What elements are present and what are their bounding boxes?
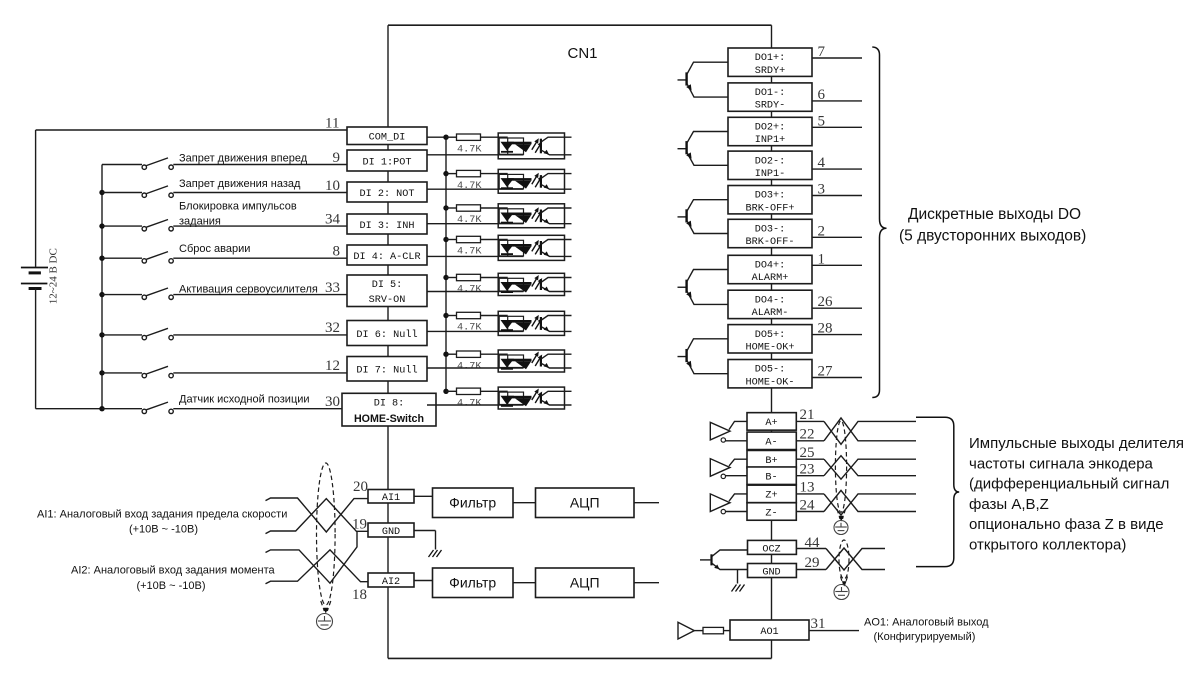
svg-text:GND: GND xyxy=(382,527,400,538)
svg-text:32: 32 xyxy=(325,320,340,336)
pin box A- xyxy=(747,432,796,450)
pin box B- xyxy=(747,467,796,485)
wire: AI2 to filter xyxy=(414,580,433,582)
svg-text:(+10В ~ -10В): (+10В ~ -10В) xyxy=(136,580,205,592)
svg-text:Фильтр: Фильтр xyxy=(449,494,496,510)
wire: DI box to optocoupler U3 xyxy=(427,223,524,225)
battery B1 12~24V DC xyxy=(35,130,37,267)
svg-text:Импульсные выходы делителя: Импульсные выходы делителя xyxy=(969,435,1184,452)
svg-text:Блокировка импульсов: Блокировка импульсов xyxy=(179,200,297,212)
pin box DO1- SRDY- xyxy=(728,83,812,111)
junction on switch bus row DI2 xyxy=(99,190,104,195)
svg-text:OCZ: OCZ xyxy=(762,545,780,556)
wire: switch S7 to DI7 box xyxy=(173,372,347,374)
resistor R4 4.7K xyxy=(446,239,457,241)
pin box OCZ xyxy=(748,540,797,554)
pin box B+ xyxy=(747,450,796,468)
pin box DO3+ BRK-OFF+ xyxy=(728,186,812,214)
switch S8 (DI8) xyxy=(102,408,142,410)
wire: DI box to optocoupler U2 xyxy=(427,188,524,190)
svg-text:HOME-OK+: HOME-OK+ xyxy=(746,342,795,353)
svg-text:Запрет движения назад: Запрет движения назад xyxy=(179,178,301,190)
wire: switch S8 to DI8 box xyxy=(173,408,347,410)
svg-text:Z-: Z- xyxy=(765,508,777,519)
junction on switch bus row DI5 xyxy=(99,292,104,297)
svg-text:DO4+:: DO4+: xyxy=(755,261,786,272)
pin box AI1 xyxy=(368,490,414,504)
junction: emitter to signal ground xyxy=(737,570,739,584)
svg-text:AO1: Аналоговый выход: AO1: Аналоговый выход xyxy=(864,617,989,629)
svg-text:Z+: Z+ xyxy=(765,491,777,502)
svg-text:33: 33 xyxy=(325,280,340,296)
switch S3 (DI3) xyxy=(102,225,142,227)
pin box DI1 xyxy=(347,150,427,171)
wire: CN1 top rail xyxy=(388,24,772,26)
wire: pin 11 wire battery+ to COM_DI xyxy=(36,129,347,131)
pin box DI3 xyxy=(347,214,427,234)
svg-text:10: 10 xyxy=(325,178,340,194)
wire: switch S6 to DI6 box xyxy=(173,334,347,336)
wire: DI box to optocoupler U4 xyxy=(427,255,524,257)
wire: DI box to optocoupler U7 xyxy=(427,367,524,369)
svg-text:12: 12 xyxy=(325,358,340,374)
resistor (AO1 output) xyxy=(703,627,724,633)
block: filter 2 xyxy=(433,568,514,598)
junction resistor bus row 2 xyxy=(443,171,448,176)
svg-text:(+10В ~ -10В): (+10В ~ -10В) xyxy=(129,524,198,536)
optocoupler U7 xyxy=(498,350,564,372)
protective earth (analog shield) xyxy=(317,614,333,630)
bracket: discrete outputs DO xyxy=(872,47,886,398)
svg-text:4.7K: 4.7K xyxy=(457,144,482,155)
svg-text:(дифференциальный сигнал: (дифференциальный сигнал xyxy=(969,476,1169,493)
svg-text:11: 11 xyxy=(325,116,339,132)
wire: GND to signal ground xyxy=(414,530,436,532)
svg-text:INP1+: INP1+ xyxy=(755,135,786,146)
pin box DO1+ SRDY+ xyxy=(728,48,812,76)
junction resistor bus row 3 xyxy=(443,205,448,210)
svg-text:AI2: Аналоговый вход задания м: AI2: Аналоговый вход задания момента xyxy=(71,565,276,577)
svg-text:AI1: Аналоговый вход задания: AI1: Аналоговый вход задания предела ско… xyxy=(37,509,287,521)
svg-text:12~24 В DC: 12~24 В DC xyxy=(48,248,60,304)
svg-text:31: 31 xyxy=(811,616,826,632)
pin box DO2- INP1- xyxy=(728,151,812,179)
wire: switch S1 to DI1 box xyxy=(173,164,347,166)
pin box DO5+ HOME-OK+ xyxy=(728,325,812,353)
svg-text:CN1: CN1 xyxy=(568,45,598,62)
svg-text:HOME-Switch: HOME-Switch xyxy=(354,413,424,425)
wire: filter1 to ADC1 xyxy=(513,502,536,504)
junction on switch bus row DI4 xyxy=(99,256,104,261)
transistor Q6 (open collector Z) xyxy=(700,559,710,561)
wire: DI box to optocoupler U5 xyxy=(427,291,524,293)
pin box DO2+ INP1+ xyxy=(728,117,812,145)
svg-text:30: 30 xyxy=(325,394,340,410)
wire: DI box to optocoupler U8 xyxy=(427,404,524,406)
svg-text:DO1+:: DO1+: xyxy=(755,53,786,64)
svg-text:DO3-:: DO3-: xyxy=(755,225,786,236)
resistor R6 4.7K xyxy=(446,315,457,317)
svg-text:AI1: AI1 xyxy=(382,493,400,504)
pin box GND (encoder) xyxy=(748,564,797,578)
svg-text:4.7K: 4.7K xyxy=(457,285,482,296)
svg-text:Запрет движения вперед: Запрет движения вперед xyxy=(179,153,308,165)
svg-text:Датчик исходной позиции: Датчик исходной позиции xyxy=(179,393,310,405)
line driver D3 (phase Z) xyxy=(710,494,730,512)
pin box Z+ xyxy=(747,485,796,503)
svg-text:4.7K: 4.7K xyxy=(457,361,482,372)
svg-text:A-: A- xyxy=(765,438,777,449)
svg-text:DI 2: NOT: DI 2: NOT xyxy=(359,189,414,200)
transistor Q2 (DO2 output) xyxy=(678,148,686,150)
pin box AO1 xyxy=(730,620,809,640)
pin box DI2 xyxy=(347,182,427,202)
switch S7 (DI7) xyxy=(102,372,142,374)
wire: ADC2 output stub xyxy=(634,582,659,584)
svg-text:Дискретные выходы DO: Дискретные выходы DO xyxy=(908,206,1081,223)
bracket: encoder frequency-divider outputs xyxy=(916,417,959,566)
svg-text:DO5+:: DO5+: xyxy=(755,330,786,341)
svg-text:4.7K: 4.7K xyxy=(457,399,482,410)
ground (signal) analog xyxy=(429,550,434,557)
line driver D1 (phase A) xyxy=(710,422,730,440)
wire: filter2 to ADC2 xyxy=(513,582,536,584)
wire: DI box to optocoupler U1 xyxy=(427,154,524,156)
switch S6 (DI6) xyxy=(102,334,142,336)
shield ellipse (analog cable) xyxy=(317,463,336,605)
svg-text:BRK-OFF-: BRK-OFF- xyxy=(746,237,795,248)
pin box DO4+ ALARM+ xyxy=(728,255,812,283)
pin box DI5 xyxy=(347,275,427,307)
wire: battery- return to switch bus xyxy=(36,408,102,410)
wire: AI1 to filter xyxy=(414,495,433,497)
optocoupler U1 xyxy=(498,133,564,159)
svg-text:DI 3: INH: DI 3: INH xyxy=(359,221,414,232)
wire: right spine (DO/encoder/AO chain) xyxy=(771,25,773,658)
svg-text:задания: задания xyxy=(179,216,221,228)
twisted pair (AI2 input) xyxy=(266,531,358,583)
twisted pair (encoder differential) xyxy=(796,493,824,495)
svg-text:фазы A,B,Z: фазы A,B,Z xyxy=(969,496,1049,513)
svg-text:DO5-:: DO5-: xyxy=(755,365,786,376)
svg-text:SRDY+: SRDY+ xyxy=(755,66,786,77)
wire: switch S5 to DI5 box xyxy=(173,294,347,296)
wire: bottom rail xyxy=(388,657,772,659)
resistor R2 4.7K xyxy=(446,173,457,175)
svg-text:DI 1:POT: DI 1:POT xyxy=(363,157,412,168)
svg-text:Фильтр: Фильтр xyxy=(449,574,496,590)
twisted pair (encoder differential) xyxy=(796,420,824,422)
svg-text:4.7K: 4.7K xyxy=(457,181,482,192)
svg-text:8: 8 xyxy=(333,244,341,260)
wire: ADC1 output stub xyxy=(634,502,659,504)
switch S4 (DI4) xyxy=(102,257,142,259)
svg-text:4.7K: 4.7K xyxy=(457,215,482,226)
svg-text:B-: B- xyxy=(765,473,777,484)
svg-text:19: 19 xyxy=(352,517,367,533)
svg-text:открытого коллектора): открытого коллектора) xyxy=(969,537,1126,554)
svg-text:AO1: AO1 xyxy=(760,627,778,638)
pin box DI4 xyxy=(347,245,427,265)
svg-text:COM_DI: COM_DI xyxy=(369,133,406,144)
pin box Z- xyxy=(747,503,796,521)
svg-text:GND: GND xyxy=(762,568,780,579)
block: ADC 2 xyxy=(536,568,635,598)
switch S5 (DI5) xyxy=(102,294,142,296)
resistor R5 4.7K xyxy=(446,277,457,279)
svg-text:ALARM+: ALARM+ xyxy=(752,273,789,284)
svg-text:DO4-:: DO4-: xyxy=(755,295,786,306)
optocoupler U8 xyxy=(498,387,564,409)
switch S2 (DI2) xyxy=(102,192,142,194)
wire: COM_DI to 4.7K resistor bus xyxy=(427,136,446,138)
optocoupler U2 xyxy=(498,169,564,193)
junction on switch bus row DI6 xyxy=(99,332,104,337)
svg-text:Сброс аварии: Сброс аварии xyxy=(179,243,250,255)
wire: left spine (DI/AI chain) xyxy=(387,25,389,658)
junction resistor bus row 1 xyxy=(443,135,448,140)
svg-text:DI 6: Null: DI 6: Null xyxy=(356,329,417,341)
svg-text:DO2-:: DO2-: xyxy=(755,156,786,167)
protective earth (OCZ shield) xyxy=(834,585,849,600)
svg-text:A+: A+ xyxy=(765,418,777,429)
pin box DI7 xyxy=(347,357,427,382)
resistor R7 4.7K xyxy=(446,353,457,355)
junction on switch bus row DI8 xyxy=(99,406,104,411)
optocoupler U5 xyxy=(498,273,564,295)
junction resistor bus row 6 xyxy=(443,313,448,318)
svg-text:DI 8:: DI 8: xyxy=(374,398,405,409)
svg-text:частоты сигнала энкодера: частоты сигнала энкодера xyxy=(969,455,1154,472)
resistor R8 4.7K xyxy=(446,390,457,392)
wire: switch S4 to DI4 box xyxy=(173,257,347,259)
transistor Q5 (DO5 output) xyxy=(678,356,686,358)
svg-text:18: 18 xyxy=(352,587,367,603)
junction resistor bus row 7 xyxy=(443,352,448,357)
transistor Q1 (DO1 output) xyxy=(678,79,686,81)
block: filter 1 xyxy=(433,488,514,518)
svg-text:ALARM-: ALARM- xyxy=(752,308,789,319)
protective earth (encoder shield) xyxy=(834,521,848,535)
optocoupler U3 xyxy=(498,204,564,228)
pin box DO4- ALARM- xyxy=(728,290,812,318)
switch S1 (DI1) xyxy=(102,164,142,166)
svg-text:опционально фаза Z в виде: опционально фаза Z в виде xyxy=(969,516,1164,533)
shield ellipse (encoder cable) xyxy=(835,421,846,513)
pin box AI2 xyxy=(368,573,414,587)
svg-text:DI 7: Null: DI 7: Null xyxy=(356,365,417,377)
svg-text:BRK-OFF+: BRK-OFF+ xyxy=(746,203,795,214)
pin box DI6 xyxy=(347,321,427,346)
svg-text:SRV-ON: SRV-ON xyxy=(369,295,406,306)
svg-text:DO3+:: DO3+: xyxy=(755,191,786,202)
svg-text:DI 5:: DI 5: xyxy=(372,280,403,291)
svg-text:HOME-OK-: HOME-OK- xyxy=(746,377,795,388)
svg-text:9: 9 xyxy=(333,150,341,166)
wire: switch S3 to DI3 box xyxy=(173,225,347,227)
pin box DI8 xyxy=(342,393,436,426)
svg-text:(Конфигурируемый): (Конфигурируемый) xyxy=(874,631,976,643)
pin box COM_DI xyxy=(347,127,427,145)
svg-text:AI2: AI2 xyxy=(382,577,400,588)
pin box A+ xyxy=(747,413,796,431)
line driver D2 (phase B) xyxy=(710,459,730,477)
twisted pair (AI1 input) xyxy=(266,498,369,532)
svg-text:АЦП: АЦП xyxy=(570,574,600,590)
twisted pair (OCZ output) xyxy=(796,548,826,550)
junction resistor bus row 5 xyxy=(443,275,448,280)
resistor R1 4.7K xyxy=(446,136,457,138)
transistor Q3 (DO3 output) xyxy=(678,216,686,218)
optocoupler U6 xyxy=(498,311,564,335)
svg-text:20: 20 xyxy=(353,479,368,495)
svg-text:DI 4: A-CLR: DI 4: A-CLR xyxy=(353,252,420,263)
junction on switch bus row DI3 xyxy=(99,223,104,228)
wire: DI box to optocoupler U6 xyxy=(427,330,524,332)
transistor Q4 (DO4 output) xyxy=(678,286,686,288)
shield ellipse (OCZ cable) xyxy=(839,540,849,579)
pin box GND (analog) xyxy=(368,523,414,537)
resistor R3 4.7K xyxy=(446,207,457,209)
svg-text:(5 двусторонних выходов): (5 двусторонних выходов) xyxy=(899,228,1086,245)
ground (signal) under OCZ xyxy=(732,585,737,592)
svg-text:DO2+:: DO2+: xyxy=(755,123,786,134)
pin box DO5- HOME-OK- xyxy=(728,360,812,388)
optocoupler U4 xyxy=(498,235,564,260)
junction resistor bus row 8 xyxy=(443,389,448,394)
twisted pair (encoder differential) xyxy=(796,458,824,460)
svg-text:АЦП: АЦП xyxy=(570,494,600,510)
junction resistor bus row 4 xyxy=(443,237,448,242)
svg-text:SRDY-: SRDY- xyxy=(755,101,786,112)
buffer amplifier (AO1) xyxy=(678,622,694,639)
wire: switch S2 to DI2 box xyxy=(173,192,347,194)
svg-text:INP1-: INP1- xyxy=(755,169,786,180)
node: switch common bus xyxy=(101,165,103,409)
pin box DO3- BRK-OFF- xyxy=(728,219,812,247)
svg-text:DO1-:: DO1-: xyxy=(755,88,786,99)
junction on switch bus row DI7 xyxy=(99,370,104,375)
node: resistor bus xyxy=(445,137,447,391)
svg-text:34: 34 xyxy=(325,211,341,227)
svg-text:Активация сервоусилителя: Активация сервоусилителя xyxy=(179,283,318,295)
svg-text:B+: B+ xyxy=(765,456,777,467)
block: ADC 1 xyxy=(536,488,635,518)
